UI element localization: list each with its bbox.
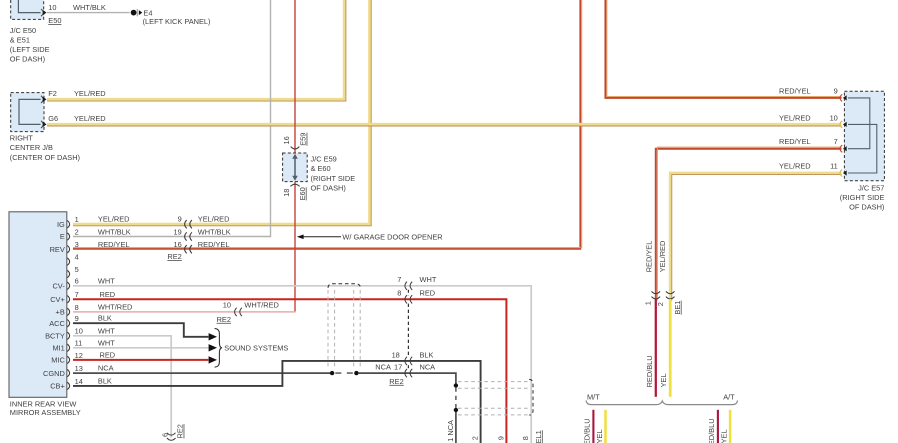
ground point E4 (left kick panel) — [131, 10, 137, 16]
svg-text:W/ GARAGE DOOR OPENER: W/ GARAGE DOOR OPENER — [342, 232, 442, 241]
arrow to sound systems 2 — [209, 344, 217, 351]
svg-text:6: 6 — [160, 433, 169, 437]
svg-text:A/T: A/T — [723, 393, 735, 402]
shield side lines (dashed grey) — [327, 290, 329, 368]
svg-text:EL1: EL1 — [534, 430, 543, 443]
svg-text:16: 16 — [173, 240, 181, 249]
wire YEL below BE1 pin 2 — [669, 299, 672, 397]
wire WHT mirror pin 10 (BCTY) down x=171.2 to RE2 pin 6 — [73, 336, 171, 438]
mirror pin 1 IG — [67, 221, 69, 228]
svg-text:RED/BLU: RED/BLU — [707, 418, 716, 443]
svg-text:18: 18 — [282, 189, 291, 197]
wire YEL/RED from top edge down x=370.3 then left to mirror pin 1 (IG) — [73, 0, 370, 224]
junction block RIGHT CENTER J/B (center of dash) — [11, 93, 44, 132]
connector RE2 pin 17 arcs — [405, 369, 407, 377]
svg-text:RE2: RE2 — [389, 377, 403, 386]
svg-text:IG: IG — [57, 220, 65, 229]
wire YEL/RED from top edge down x=344.6 then left to pin F2 — [47, 0, 344, 99]
svg-text:YEL: YEL — [595, 429, 604, 443]
svg-text:11: 11 — [830, 162, 838, 171]
svg-text:2: 2 — [75, 227, 79, 236]
svg-text:1 NCA: 1 NCA — [446, 420, 455, 442]
wire RED/YEL from J/C E57 pin 7 left then down x=655.8 — [656, 149, 842, 397]
wire YEL/RED G6 to J/C E57 pin 10 — [47, 123, 842, 126]
svg-text:MI1: MI1 — [52, 344, 64, 353]
svg-text:WHT/BLK: WHT/BLK — [198, 227, 231, 236]
svg-text:9: 9 — [178, 214, 182, 223]
pin G6 — [41, 121, 43, 128]
svg-text:NCA: NCA — [98, 364, 114, 373]
component INNER REAR VIEW MIRROR ASSEMBLY — [9, 212, 67, 397]
wire WHT mirror pin 6 (CV-) to RE2 pin 7 then down x=531.2 — [73, 286, 531, 443]
svg-text:BLK: BLK — [98, 314, 112, 323]
connector BE1 pin 1 arcs — [652, 291, 661, 293]
svg-text:RED: RED — [100, 290, 116, 299]
pin 10 of J/C E50 — [41, 9, 43, 16]
wire WHT mirror pin 11 (MI1) to sound systems arrow — [73, 347, 208, 349]
svg-text:RED/YEL: RED/YEL — [644, 241, 653, 273]
svg-text:CGND: CGND — [43, 369, 65, 378]
svg-text:19: 19 — [173, 227, 181, 236]
svg-text:YEL: YEL — [659, 373, 668, 387]
svg-text:J/C E50: J/C E50 — [10, 26, 36, 35]
wire WHT/BLK from J/C E50 pin 10 to ground E4 — [47, 12, 130, 14]
wire RED/BLU (A/T branch) — [717, 410, 719, 443]
mirror pin 2 E — [67, 233, 69, 240]
wire YEL/RED from J/C E57 pin 11 left then down x=670.2 — [670, 173, 841, 397]
svg-text:RED: RED — [100, 350, 116, 359]
dashed connector link RE2 (pins 7/8/18/17) — [407, 290, 409, 296]
svg-text:YEL/RED: YEL/RED — [779, 162, 811, 171]
shield cap (dashed) above CV wires — [328, 284, 360, 288]
mirror pin 4 — [67, 258, 69, 265]
svg-text:E59: E59 — [299, 133, 308, 146]
wire RED/BLU below BE1 pin 1 — [655, 299, 657, 397]
svg-text:(LEFT SIDE: (LEFT SIDE — [10, 45, 50, 54]
svg-text:SOUND SYSTEMS: SOUND SYSTEMS — [224, 343, 288, 352]
svg-text:WHT/BLK: WHT/BLK — [73, 3, 106, 12]
svg-text:18: 18 — [392, 350, 400, 359]
svg-text:RED/YEL: RED/YEL — [779, 86, 811, 95]
svg-text:RE2: RE2 — [176, 424, 185, 438]
shield side lines horizontal (dashed grey) — [458, 381, 531, 383]
svg-text:OF DASH): OF DASH) — [10, 55, 45, 64]
svg-text:G6: G6 — [48, 114, 58, 123]
junction block J/C E59 & E60 (right side of dash) — [283, 153, 308, 182]
svg-text:16: 16 — [282, 136, 291, 144]
svg-text:ACC: ACC — [49, 319, 65, 328]
svg-text:YEL: YEL — [719, 429, 728, 443]
svg-text:4: 4 — [75, 253, 79, 262]
svg-text:1: 1 — [75, 215, 79, 224]
svg-text:(RIGHT SIDE: (RIGHT SIDE — [311, 174, 356, 183]
wire RED (garage door opener feed) from top edge down x=295.6 through J/C E59-E60 — [294, 0, 296, 153]
connector RE2 pin 19 arcs — [185, 232, 187, 240]
svg-text:WHT: WHT — [420, 275, 437, 284]
svg-text:10: 10 — [75, 327, 83, 336]
arrow to sound systems 1 — [209, 333, 217, 340]
connector RE2 pin 9 arcs — [185, 220, 187, 228]
svg-text:11: 11 — [75, 339, 83, 348]
wire RED/YEL from top edge down x=604.6 then right to J/C E57 pin 9 — [605, 0, 841, 98]
svg-text:RED/BLU: RED/BLU — [645, 355, 654, 387]
svg-text:NCA: NCA — [375, 363, 391, 372]
svg-text:17: 17 — [394, 363, 402, 372]
svg-text:2: 2 — [471, 436, 480, 440]
svg-text:10: 10 — [48, 3, 56, 12]
svg-text:8: 8 — [397, 289, 401, 298]
mirror pin 3 REV — [67, 246, 69, 253]
mirror pin 6 CV- — [67, 282, 69, 289]
svg-text:CV+: CV+ — [50, 295, 65, 304]
svg-text:RED/YEL: RED/YEL — [779, 137, 811, 146]
arrow to sound systems 3 — [209, 356, 217, 363]
svg-text:WHT/RED: WHT/RED — [244, 300, 279, 309]
mirror pin 14 CB+ — [67, 382, 69, 389]
svg-text:8: 8 — [521, 436, 530, 440]
junction block J/C E50 & E51 (left side of dash) — [11, 0, 44, 19]
svg-text:9: 9 — [75, 314, 79, 323]
svg-text:7: 7 — [834, 137, 838, 146]
svg-text:2: 2 — [656, 302, 665, 306]
connector arc pin 16 above J/C E59 — [291, 147, 300, 149]
svg-text:BLK: BLK — [98, 376, 112, 385]
svg-text:BE1: BE1 — [673, 301, 682, 315]
connector RE2 pin 18 arcs — [405, 357, 407, 365]
mirror pin 8 +B — [67, 308, 69, 315]
svg-text:(LEFT KICK PANEL): (LEFT KICK PANEL) — [143, 17, 211, 26]
svg-text:WHT: WHT — [98, 326, 115, 335]
junction block J/C E57 (right side of dash) — [844, 91, 884, 181]
internal bus of J/C E50 — [18, 0, 40, 13]
svg-text:YEL/RED: YEL/RED — [658, 241, 667, 273]
connector RE2 pin 10 arcs — [235, 308, 237, 316]
svg-text:RE2: RE2 — [217, 315, 231, 324]
connector arc pin 18 below J/C E60 — [290, 184, 299, 186]
svg-text:CB+: CB+ — [50, 382, 65, 391]
svg-text:10: 10 — [830, 113, 838, 122]
svg-text:RED: RED — [420, 289, 436, 298]
shield cap (dashed) right of bottom shields — [529, 379, 533, 415]
pin 7 of E57 — [840, 145, 842, 152]
wire RED/BLU (M/T branch) — [592, 410, 594, 443]
svg-text:RED/BLU: RED/BLU — [582, 418, 591, 443]
svg-text:RED/YEL: RED/YEL — [198, 240, 230, 249]
svg-text:12: 12 — [75, 351, 83, 360]
svg-text:5: 5 — [75, 265, 79, 274]
svg-text:YEL/RED: YEL/RED — [74, 89, 106, 98]
svg-text:BLK: BLK — [420, 350, 434, 359]
svg-text:9: 9 — [496, 436, 505, 440]
svg-text:YEL/RED: YEL/RED — [779, 113, 811, 122]
connector RE2 pin 7 arcs — [405, 282, 407, 290]
svg-text:E60: E60 — [298, 187, 307, 200]
mirror pin 10 BCTY — [67, 332, 69, 339]
svg-text:REV: REV — [50, 245, 65, 254]
pin F2 — [41, 96, 43, 103]
wire BLK mirror pin 14 (CB+) jog up to RE2 pin 18 then down x=480.6 — [73, 361, 481, 443]
svg-text:YEL/RED: YEL/RED — [198, 214, 230, 223]
svg-text:+B: +B — [56, 308, 65, 317]
wire RED mirror pin 7 (CV+) to RE2 pin 8 then down x=506.4 — [73, 299, 506, 443]
connector RE2 pin 6 arcs (bottom) — [167, 433, 176, 435]
mirror pin 5 — [67, 270, 69, 277]
svg-text:F2: F2 — [48, 89, 57, 98]
svg-text:WHT: WHT — [98, 338, 115, 347]
wire YEL (M/T branch) — [604, 410, 607, 443]
svg-text:E50: E50 — [48, 16, 61, 25]
pin 11 of E57 — [840, 169, 842, 176]
svg-text:(RIGHT SIDE: (RIGHT SIDE — [840, 193, 885, 202]
svg-text:CENTER J/B: CENTER J/B — [10, 143, 53, 152]
wire RED mirror pin 12 (MIC) to sound systems arrow — [73, 359, 208, 361]
svg-text:3: 3 — [75, 240, 79, 249]
svg-text:E: E — [60, 232, 65, 241]
svg-text:NCA: NCA — [420, 363, 436, 372]
svg-text:WHT: WHT — [98, 276, 115, 285]
svg-text:13: 13 — [75, 364, 83, 373]
wire YEL (A/T branch) — [729, 410, 732, 443]
wire WHT/RED mirror pin 8 (+B) to RE2 pin 10, joins garage feed — [73, 311, 296, 313]
svg-text:14: 14 — [75, 377, 83, 386]
svg-text:J/C E59: J/C E59 — [311, 155, 337, 164]
svg-text:RED/YEL: RED/YEL — [98, 240, 130, 249]
svg-text:RIGHT: RIGHT — [10, 134, 33, 143]
wire BLK mirror pin 9 (ACC) to sound systems arrow — [73, 323, 208, 337]
svg-text:M/T: M/T — [587, 393, 600, 402]
svg-text:1: 1 — [643, 301, 652, 305]
connector RE2 pin 8 arcs — [405, 295, 407, 303]
svg-text:E4: E4 — [143, 8, 152, 17]
wire NCA mirror pin 13 (CGND) with shield taps, to RE2 pin 17 then down x=455.9 — [73, 372, 330, 374]
svg-text:WHT/BLK: WHT/BLK — [98, 227, 131, 236]
svg-text:OF DASH): OF DASH) — [311, 183, 346, 192]
svg-text:6: 6 — [75, 277, 79, 286]
svg-text:YEL/RED: YEL/RED — [74, 114, 106, 123]
internal bus of RIGHT CENTER J/B — [19, 99, 41, 124]
mirror pin 13 CGND — [67, 369, 69, 376]
svg-text:OF DASH): OF DASH) — [849, 203, 884, 212]
M/T / A/T option brace — [586, 400, 737, 404]
svg-text:7: 7 — [397, 275, 401, 284]
connector BE1 pin 2 arcs — [666, 291, 675, 293]
shield junction dots on CGND wire — [330, 371, 334, 375]
svg-text:RE2: RE2 — [167, 252, 181, 261]
mirror pin 12 MIC — [67, 356, 69, 363]
internal link E57 pin 10 to pin 11 — [848, 124, 877, 173]
svg-text:YEL/RED: YEL/RED — [98, 214, 130, 223]
mirror pin 9 ACC — [67, 320, 69, 327]
wire RED/YEL from top edge down x=579.8 then left to mirror pin 3 (REV) — [73, 0, 580, 249]
svg-text:& E60: & E60 — [311, 164, 331, 173]
internal double-arrow bus of J/C E59 — [294, 157, 296, 179]
mirror pin 11 MI1 — [67, 344, 69, 351]
internal link E57 pin 9 to pin 7 — [848, 98, 870, 149]
svg-text:& E51: & E51 — [10, 35, 30, 44]
pin 10 of E57 — [840, 121, 842, 128]
pin 9 of E57 — [840, 94, 842, 101]
svg-text:(CENTER OF DASH): (CENTER OF DASH) — [10, 153, 80, 162]
connector RE2 pin 16 arcs — [185, 245, 187, 253]
brace and label SOUND SYSTEMS — [215, 328, 222, 367]
svg-text:8: 8 — [75, 303, 79, 312]
svg-text:9: 9 — [834, 86, 838, 95]
svg-text:10: 10 — [223, 300, 231, 309]
svg-text:BCTY: BCTY — [45, 332, 65, 341]
mirror pin 7 CV+ — [67, 296, 69, 303]
wire WHT/BLK from top edge down x=271 then left to mirror pin 2 (E) — [73, 0, 271, 237]
svg-text:J/C E57: J/C E57 — [858, 183, 884, 192]
svg-text:WHT/RED: WHT/RED — [98, 302, 132, 311]
svg-text:CV-: CV- — [52, 282, 65, 291]
svg-text:7: 7 — [75, 290, 79, 299]
svg-text:MIC: MIC — [51, 356, 65, 365]
svg-text:MIRROR ASSEMBLY: MIRROR ASSEMBLY — [10, 408, 81, 417]
note arrow W/ GARAGE DOOR OPENER — [299, 236, 341, 238]
